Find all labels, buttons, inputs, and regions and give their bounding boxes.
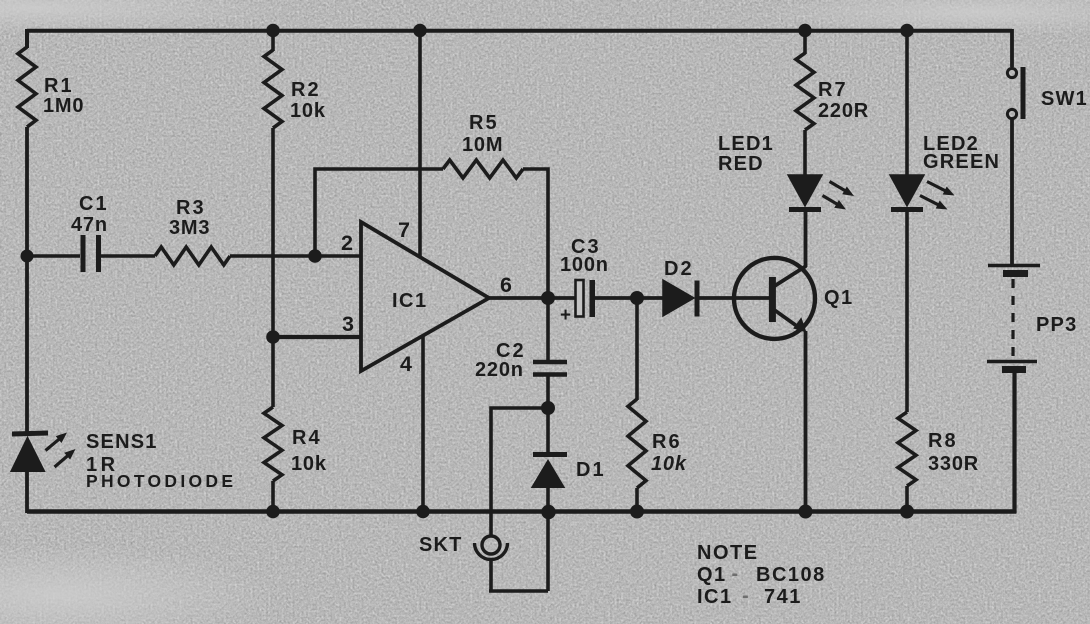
wire LED2 to R8 [905,212,909,412]
wire feedback loop right [523,169,548,298]
LED LED1 [718,133,854,210]
diode D1 [533,455,606,488]
svg-text:R4: R4 [292,427,322,449]
svg-text:C1: C1 [79,193,109,215]
wire C1 input tap [27,254,80,257]
svg-text:10k: 10k [291,453,327,475]
svg-text:IC1: IC1 [697,586,733,608]
svg-text:LED1: LED1 [718,133,774,155]
wire R7 branch top [803,29,807,54]
svg-text:SKT: SKT [419,534,463,556]
node R2 top rail junction [266,24,280,38]
svg-text:100n: 100n [560,254,609,276]
node emitter ground junction [799,505,813,519]
wire R8 bottom [905,486,909,511]
resistor R4 [264,407,282,481]
resistor R1 [18,47,36,127]
node R6 tap junction [630,291,644,305]
svg-text:10k: 10k [290,100,326,122]
svg-text:SENS1: SENS1 [86,431,158,453]
wire op-amp pin 7 supply [418,29,422,258]
svg-text:RED: RED [718,153,764,175]
svg-text:D1: D1 [576,459,606,481]
wire left rail upper [25,29,29,48]
resistor R8 [898,412,916,486]
svg-text:741: 741 [764,586,802,608]
node R4 ground junction [266,505,280,519]
node input tap junction [21,250,34,263]
resistor R6 [628,399,646,488]
node R6 ground junction [630,505,644,519]
node pin3 divider junction [266,330,280,344]
wire R4 bottom [271,481,275,511]
svg-text:GREEN: GREEN [923,151,1000,173]
wire top supply rail [27,29,1012,33]
svg-text:-: - [742,585,749,607]
node pin4 ground junction [416,505,430,519]
svg-text:D2: D2 [664,258,694,280]
wire R6 branch [635,298,639,400]
svg-text:PP3: PP3 [1036,314,1077,336]
diode D2 [663,258,697,317]
wire R2 branch top [271,29,275,51]
op-amp IC1 [361,222,489,371]
svg-text:4: 4 [400,352,413,376]
svg-text:7: 7 [398,218,411,242]
node R8 ground junction [900,505,914,519]
wire left rail middle [25,127,29,434]
resistor R2 [264,50,282,128]
wire SW1 to battery [1010,118,1014,265]
node D1 loop junction [541,401,555,415]
wire R2 bottom to pin3 node and R4 [271,128,275,407]
node D1 ground junction [541,505,555,519]
svg-text:220R: 220R [818,100,869,122]
wire op-amp output [489,296,577,300]
wire battery to ground rail [1012,372,1016,514]
socket SKT [419,534,508,560]
svg-text:BC108: BC108 [756,564,826,586]
wire D2 to Q1 base [699,296,769,300]
node pin7 rail junction [413,24,427,38]
svg-text:330R: 330R [928,453,979,475]
photodiode SENS1 [12,431,237,491]
wire R7 to LED1 [803,130,807,176]
svg-text:R2: R2 [291,79,321,101]
svg-text:Q1: Q1 [697,564,727,586]
wire R6 bottom [635,488,639,511]
svg-text:6: 6 [500,273,513,297]
svg-text:10k: 10k [651,453,687,475]
svg-text:R6: R6 [652,431,682,453]
svg-text:R3: R3 [176,197,206,219]
svg-text:R5: R5 [469,112,499,134]
svg-text:3: 3 [342,312,355,336]
svg-text:1M0: 1M0 [43,95,84,117]
svg-text:220n: 220n [475,359,524,381]
battery PP3 [987,266,1077,370]
svg-text:IC1: IC1 [392,290,428,312]
resistor R3 [155,247,230,265]
svg-text:R1: R1 [44,75,74,97]
svg-text:10M: 10M [462,134,503,156]
LED LED2 [890,133,1000,210]
wire Q1 collector up [804,212,808,267]
node feedback tap junction [308,249,322,263]
wire LED2 branch top [905,29,909,176]
node output junction [541,291,555,305]
node R7 rail junction [798,24,812,38]
capacitor C3 [560,236,609,326]
capacitor C2 [475,340,567,381]
wire bottom ground rail [27,509,1016,514]
wire C2 branch [546,298,550,360]
wire R3 to op-amp pin 2 [230,254,361,257]
wire C1 to R3 [101,254,155,257]
capacitor C1 [71,193,109,272]
wire op-amp pin 3 [273,335,361,339]
svg-text:R8: R8 [928,430,958,452]
node LED2 rail junction [900,24,914,38]
wire SKT loop top [491,408,548,536]
switch SW1 [1007,29,1088,119]
svg-text:PHOTODIODE: PHOTODIODE [86,471,236,491]
wire D1 to ground and stub below [546,485,550,591]
note text block [697,542,826,608]
wire left rail lower [25,470,29,513]
svg-text:NOTE: NOTE [697,542,759,564]
svg-text:R7: R7 [818,79,848,101]
svg-text:Q1: Q1 [824,287,854,309]
svg-text:47n: 47n [71,214,108,236]
transistor Q1 [734,258,854,339]
svg-text:-: - [732,563,739,585]
wire Q1 emitter down [804,331,808,511]
wire C2 to D1 [546,376,550,454]
svg-text:SW1: SW1 [1041,88,1088,110]
svg-text:2: 2 [341,231,354,255]
svg-text:+: + [560,305,572,326]
wire feedback loop left/top [315,169,443,256]
wire op-amp pin 4 ground [421,336,425,511]
wire SKT loop bottom [489,561,548,591]
wire C3 to D2 [595,296,664,300]
svg-text:3M3: 3M3 [169,217,210,239]
resistor R5 [443,160,523,178]
resistor R7 [796,53,814,130]
